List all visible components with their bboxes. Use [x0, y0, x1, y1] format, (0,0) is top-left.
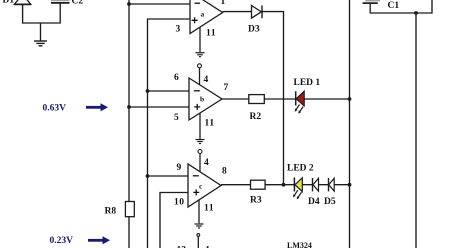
ground G3 (op-amp b): [196, 140, 205, 144]
wire op-amp a pin 11: [199, 27, 201, 52]
svg-text:D1: D1: [3, 0, 15, 6]
svg-text:11: 11: [204, 204, 214, 214]
node at rail A / op-amp b plus: [127, 105, 131, 109]
wire op-amp b pin 11: [199, 113, 201, 139]
wire op-amp b minus input: [148, 90, 190, 92]
LED 2 (yellow): [293, 178, 302, 200]
wire rail C (to op-amp c + input): [160, 193, 188, 248]
svg-text:0.63V: 0.63V: [43, 103, 67, 113]
ground G1 (D1/C2 net): [34, 41, 47, 46]
wire D1-C2 ground net: [23, 3, 61, 23]
op-amp U1c: [188, 164, 221, 207]
wire op-amp c minus input: [148, 175, 189, 177]
svg-text:a: a: [201, 10, 205, 19]
svg-text:7: 7: [224, 83, 229, 93]
svg-text:8: 8: [222, 167, 227, 177]
node at rail B / op-amp c minus: [146, 174, 150, 178]
svg-text:11: 11: [205, 119, 215, 129]
svg-text:6: 6: [174, 73, 179, 83]
wire op-amp b plus input: [129, 106, 189, 108]
diode D1: [14, 0, 31, 4]
diode D3: [252, 6, 263, 19]
pin 4 terminal of op-amp d: [197, 234, 200, 248]
svg-text:LED 1: LED 1: [294, 78, 321, 88]
svg-text:b: b: [200, 95, 204, 104]
diode D4: [313, 178, 319, 191]
ground G2 (op-amp a): [196, 53, 205, 57]
svg-text:R3: R3: [250, 196, 262, 206]
node at rail D / LED1 row: [348, 97, 352, 101]
resistor R2: [249, 95, 264, 104]
svg-text:0.23V: 0.23V: [50, 236, 74, 246]
node at rail A / op-amp a minus: [127, 2, 131, 6]
resistor R3: [251, 180, 266, 189]
diode D5: [329, 178, 335, 191]
ground G4 (op-amp c): [195, 224, 204, 228]
wire op-amp a output through D3 down to LED2 row: [223, 12, 284, 185]
svg-text:R8: R8: [105, 207, 117, 217]
capacitor C1: [363, 1, 380, 4]
pin 4 terminal of op-amp c: [198, 150, 202, 172]
svg-text:LM324: LM324: [287, 241, 312, 248]
wire rail B (second vertical, to op-amp a + input): [148, 19, 191, 248]
svg-text:1: 1: [221, 0, 226, 7]
node at C1 / rail E: [414, 11, 418, 15]
wire rail A (left vertical through R8): [128, 0, 130, 248]
pin 4 terminal of op-amp b: [198, 64, 202, 85]
wire rail D (right vertical LED column): [349, 0, 351, 248]
wire C1 net top right: [370, 0, 432, 13]
svg-text:4: 4: [204, 75, 209, 85]
svg-text:C2: C2: [72, 0, 84, 7]
svg-text:D5: D5: [324, 197, 336, 207]
resistor R8: [125, 202, 134, 217]
svg-text:10: 10: [174, 198, 185, 208]
arrow 0.63V: [86, 103, 108, 111]
wire op-amp b output row to rail: [222, 98, 350, 100]
node at rail B / op-amp b minus: [146, 89, 150, 93]
svg-text:9: 9: [177, 163, 182, 173]
ground G1 stem: [40, 23, 42, 41]
svg-text:4: 4: [204, 158, 209, 168]
op-amp U1b: [189, 78, 222, 120]
wire op-amp a minus input: [129, 3, 190, 5]
svg-text:D3: D3: [248, 25, 260, 35]
svg-text:11: 11: [206, 29, 216, 39]
svg-text:3: 3: [176, 25, 181, 35]
wire op-amp c pin 11: [198, 200, 200, 223]
svg-text:D4: D4: [308, 197, 320, 207]
op-amp U1a: [190, 0, 223, 34]
wire op-amp c output row to rail: [221, 184, 350, 186]
arrow 0.23V: [88, 236, 110, 244]
node at rail D / LED2 row: [348, 183, 352, 187]
LED 1 (red): [295, 91, 305, 114]
svg-text:R2: R2: [250, 112, 262, 122]
wire rail E (from C1 node down): [415, 13, 417, 248]
capacitor C2: [51, 0, 70, 3]
svg-text:5: 5: [174, 113, 179, 123]
svg-text:LED 2: LED 2: [287, 164, 314, 174]
node at D3 rail / LED2 row: [282, 183, 286, 187]
svg-text:C1: C1: [388, 1, 400, 11]
